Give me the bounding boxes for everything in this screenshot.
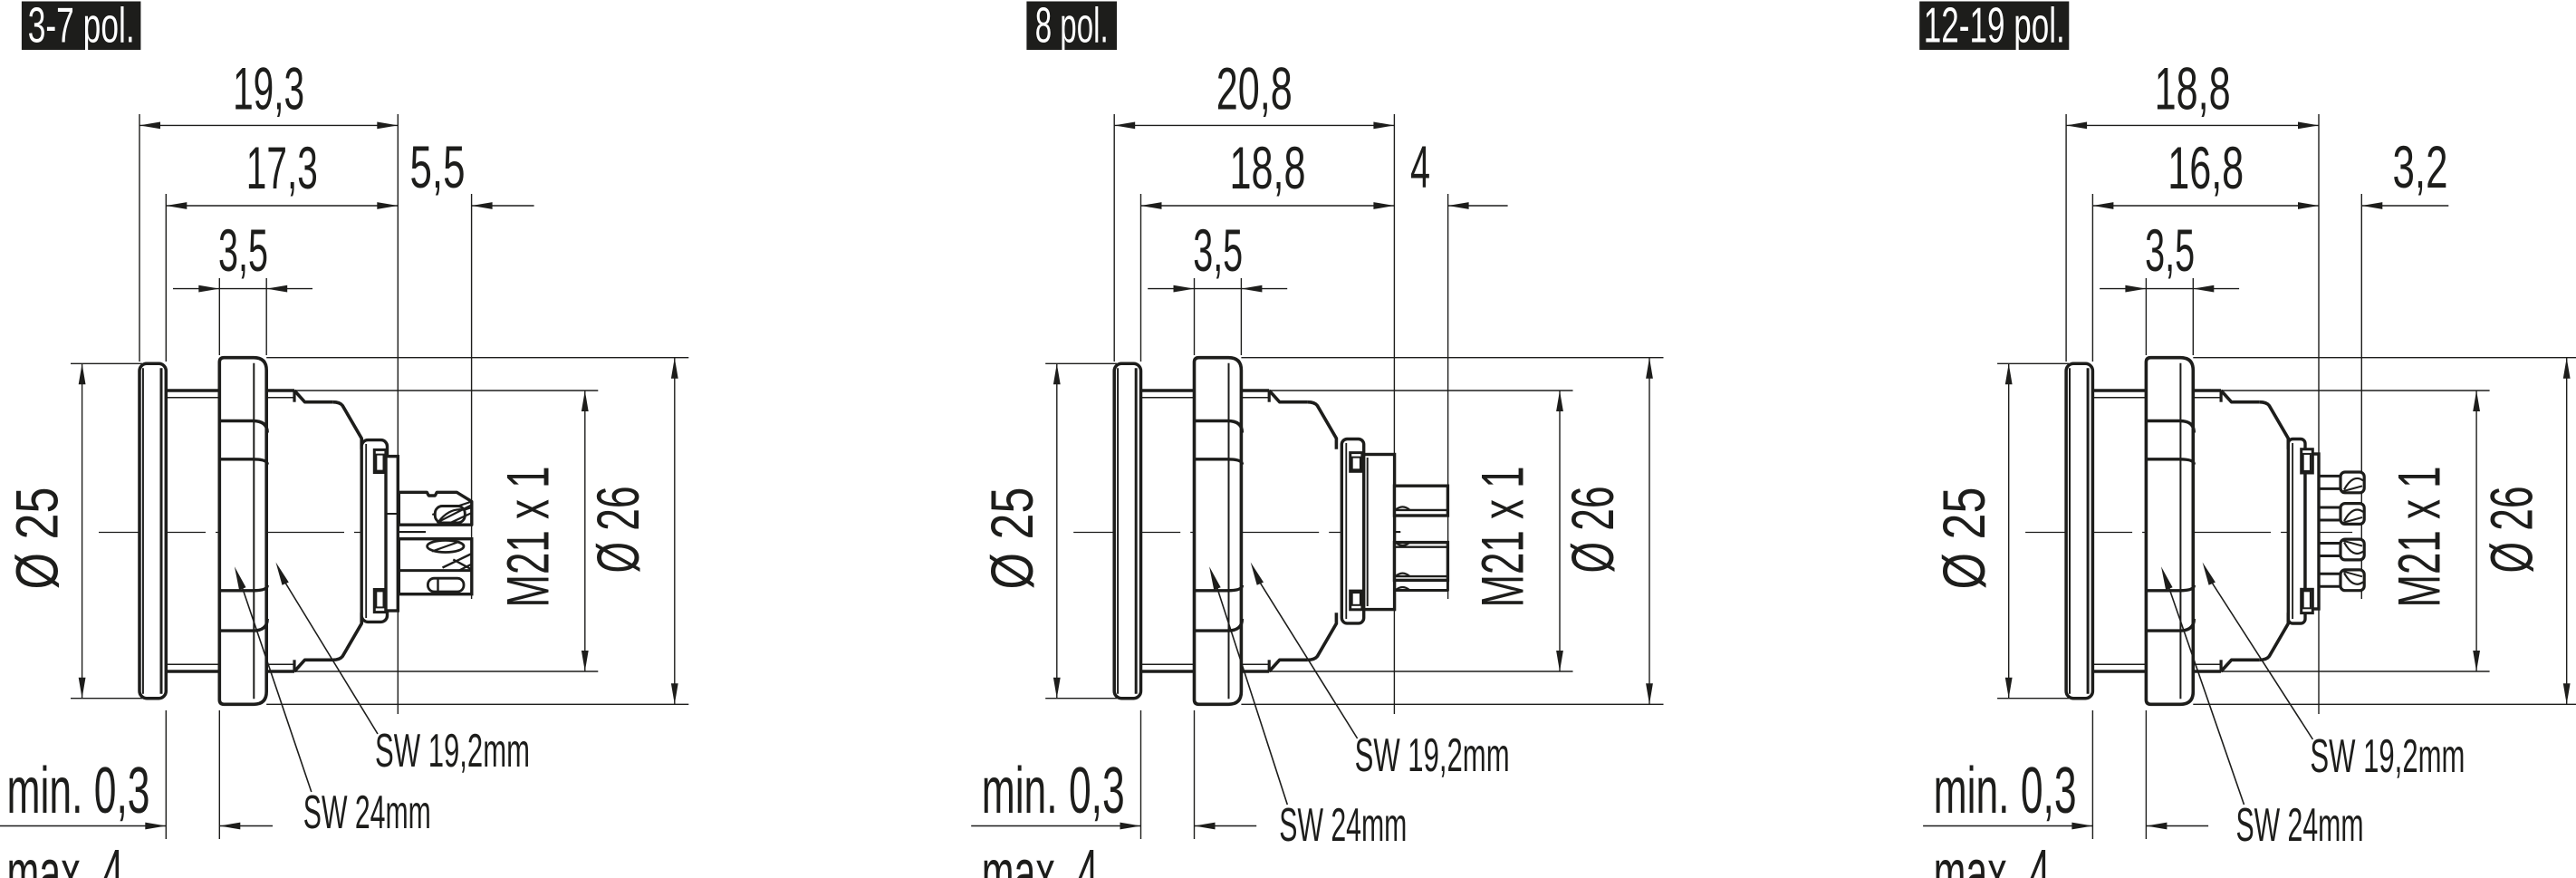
svg-text:min. 0,3: min. 0,3 (7, 754, 150, 827)
svg-text:SW 19,2mm: SW 19,2mm (1355, 729, 1510, 782)
panel 3 rear insulator plate (2305, 454, 2319, 609)
panel 1 dimension min. 0,3 (0, 825, 166, 827)
panel 2 extension line contact end (1447, 194, 1449, 599)
panel 2 rear cone (1307, 402, 1336, 449)
panel 3 extension line contact end (2360, 194, 2362, 599)
panel 3 insulator collar (2288, 439, 2305, 624)
svg-text:12-19 pol.: 12-19 pol. (1924, 0, 2065, 53)
panel 1 thread section front (166, 389, 219, 392)
panel 1 extension line nut right (265, 278, 267, 355)
panel 1 rear insulator plate (386, 457, 398, 611)
panel 2 dimension 4 (1448, 205, 1508, 207)
panel 1 rear cone (332, 402, 361, 449)
panel 2 extension line nut left (1194, 278, 1196, 355)
svg-text:3-7 pol.: 3-7 pol. (28, 0, 135, 53)
panel 2 leader SW 19,2mm (1259, 582, 1357, 739)
svg-text:3,5: 3,5 (2145, 217, 2195, 284)
panel 2 extension line flange right (1140, 194, 1142, 362)
svg-text:SW 24mm: SW 24mm (303, 786, 431, 839)
panel 2 front sealing flange (1114, 363, 1140, 698)
panel 2 mounting nut SW24 (1195, 358, 1242, 705)
panel 3 coding tab bottom (2302, 589, 2313, 613)
panel 2 pin behind (1395, 580, 1448, 590)
panel 2 thread section rear (1241, 389, 1269, 392)
panel 1 center line (99, 532, 426, 534)
svg-text:8 pol.: 8 pol. (1035, 0, 1109, 53)
panel 3 solder pin 1 (2319, 475, 2341, 478)
panel 3 mounting nut SW24 (2146, 358, 2193, 705)
panel 1 hex SW19.2 with chamfer (293, 391, 295, 402)
panel 3 hex SW19.2 with chamfer (2220, 391, 2223, 402)
panel 3 rear cone (2259, 402, 2288, 449)
panel 2 header box (1026, 2, 1117, 51)
panel 3 solder pin 2 (2319, 507, 2341, 509)
svg-text:Ø 26: Ø 26 (585, 487, 651, 574)
panel 3 thread section rear (2193, 389, 2221, 392)
panel 3 dimension Ø26 (2193, 357, 2576, 359)
panel 2 coding tab bottom (1350, 591, 1362, 610)
panel 1 mounting nut SW24 (219, 358, 266, 705)
panel 1 leader SW 19,2mm (284, 582, 378, 735)
svg-text:3,5: 3,5 (218, 217, 268, 284)
svg-text:3,2: 3,2 (2393, 134, 2448, 200)
panel 1 extension line flange left (139, 114, 140, 362)
svg-text:19,3: 19,3 (233, 56, 304, 122)
svg-text:Ø 26: Ø 26 (2479, 487, 2545, 574)
panel 1 thread section rear (266, 389, 294, 392)
panel 3 extension line rear face (2318, 114, 2320, 714)
svg-text:Ø 25: Ø 25 (979, 487, 1045, 590)
panel 2 dimension Ø25 (1045, 362, 1117, 364)
svg-text:Ø 26: Ø 26 (1560, 487, 1626, 574)
svg-text:SW 24mm: SW 24mm (2236, 799, 2364, 852)
panel 1 dimension 5,5 (472, 205, 534, 207)
svg-text:max. 4: max. 4 (7, 836, 124, 878)
panel 1 dimension Ø25 (71, 362, 142, 364)
panel 3 leader SW 19,2mm (2211, 582, 2312, 740)
panel 2 lower solder pin (1395, 543, 1448, 581)
panel 3 dimension Ø25 (1997, 362, 2069, 364)
panel 2 extension line nut right (1240, 278, 1242, 355)
svg-text:5,5: 5,5 (410, 134, 466, 200)
panel 2 upper solder pin (1395, 486, 1448, 516)
panel 3 coding tab top (2302, 449, 2313, 473)
panel 2 dimension 18,8 (1141, 205, 1395, 207)
svg-text:M21 x 1: M21 x 1 (2387, 467, 2453, 608)
panel 1 dimension 17,3 (166, 205, 398, 207)
panel 3 front sealing flange (2066, 363, 2092, 698)
svg-text:20,8: 20,8 (1216, 56, 1293, 122)
panel 1 lower solder contacts (399, 539, 472, 594)
panel 3 solder pin 3 (2319, 542, 2341, 545)
panel 2 dimension 3,5 (1148, 288, 1287, 290)
panel 1 extension line contact end (471, 194, 473, 599)
svg-text:max. 4: max. 4 (1934, 836, 2051, 878)
panel 1 extension line rear face (397, 114, 399, 714)
panel 1 dimension Ø26 (266, 357, 688, 359)
panel 1 front sealing flange (139, 363, 166, 698)
panel 3 center line (2025, 532, 2352, 534)
svg-text:min. 0,3: min. 0,3 (982, 754, 1125, 827)
panel 1 dimension 19,3 (139, 124, 398, 126)
panel 1 coding tab bottom (374, 590, 386, 613)
panel 2 extension line rear face (1393, 114, 1395, 714)
panel 3 extension line flange left (2065, 114, 2067, 362)
panel 2 leader SW 24mm (1217, 587, 1288, 805)
panel 3 extension line flange right (2091, 194, 2093, 362)
svg-text:18,8: 18,8 (1230, 135, 1306, 201)
panel 3 dimension M21 x 1 (2221, 390, 2490, 391)
panel 2 coding tab top (1350, 453, 1362, 472)
panel 3 header box (1919, 2, 2069, 51)
panel 1 header box (22, 2, 141, 51)
panel 3 solder pin 4 (2319, 573, 2341, 575)
svg-text:SW 24mm: SW 24mm (1279, 799, 1407, 852)
svg-text:min. 0,3: min. 0,3 (1934, 754, 2077, 827)
panel 1 dimension 3,5 (173, 288, 312, 290)
svg-text:SW 19,2mm: SW 19,2mm (375, 725, 530, 777)
panel 2 insulator collar (1341, 439, 1363, 623)
svg-text:Ø 25: Ø 25 (5, 487, 71, 590)
panel 2 dimension 20,8 (1114, 124, 1394, 126)
panel 2 hex SW19.2 with chamfer (1268, 391, 1271, 402)
panel 1 upper solder contact (399, 492, 472, 525)
panel 3 thread section front (2092, 389, 2146, 392)
panel 1 extension line flange right (165, 194, 167, 362)
svg-text:Ø 25: Ø 25 (1931, 487, 1997, 590)
svg-text:17,3: 17,3 (246, 135, 318, 201)
svg-text:4: 4 (1410, 134, 1430, 200)
panel 2 thread section front (1141, 389, 1195, 392)
panel 3 dimension 16,8 (2092, 205, 2319, 207)
panel 3 dimension 3,2 (2361, 205, 2448, 207)
svg-text:3,5: 3,5 (1193, 217, 1243, 284)
panel 2 extension line flange left (1113, 114, 1115, 362)
panel 3 leader SW 24mm (2169, 587, 2244, 805)
svg-text:18,8: 18,8 (2155, 56, 2231, 122)
svg-text:SW 19,2mm: SW 19,2mm (2310, 730, 2465, 783)
panel 2 dimension M21 x 1 (1269, 390, 1572, 391)
panel 1 coding tab top (374, 449, 386, 472)
panel 2 rear insulator plate (1364, 455, 1395, 610)
svg-text:M21 x 1: M21 x 1 (495, 467, 562, 608)
panel 1 insulator collar (361, 440, 387, 622)
svg-text:16,8: 16,8 (2167, 135, 2244, 201)
panel 3 dimension 18,8 (2066, 124, 2319, 126)
svg-text:max. 4: max. 4 (982, 836, 1099, 878)
panel 2 dimension Ø26 (1241, 357, 1663, 359)
panel 3 dimension 3,5 (2100, 288, 2239, 290)
panel 3 extension line nut right (2192, 278, 2194, 355)
panel 2 center line (1073, 532, 1400, 534)
panel 3 dimension min. 0,3 (1923, 825, 2092, 827)
panel 3 extension line nut left (2145, 278, 2147, 355)
panel 1 leader SW 24mm (242, 587, 311, 792)
panel 1 dimension M21 x 1 (294, 390, 598, 391)
svg-text:M21 x 1: M21 x 1 (1470, 467, 1536, 608)
panel 2 dimension min. 0,3 (971, 825, 1140, 827)
panel 1 extension line nut left (218, 278, 220, 355)
